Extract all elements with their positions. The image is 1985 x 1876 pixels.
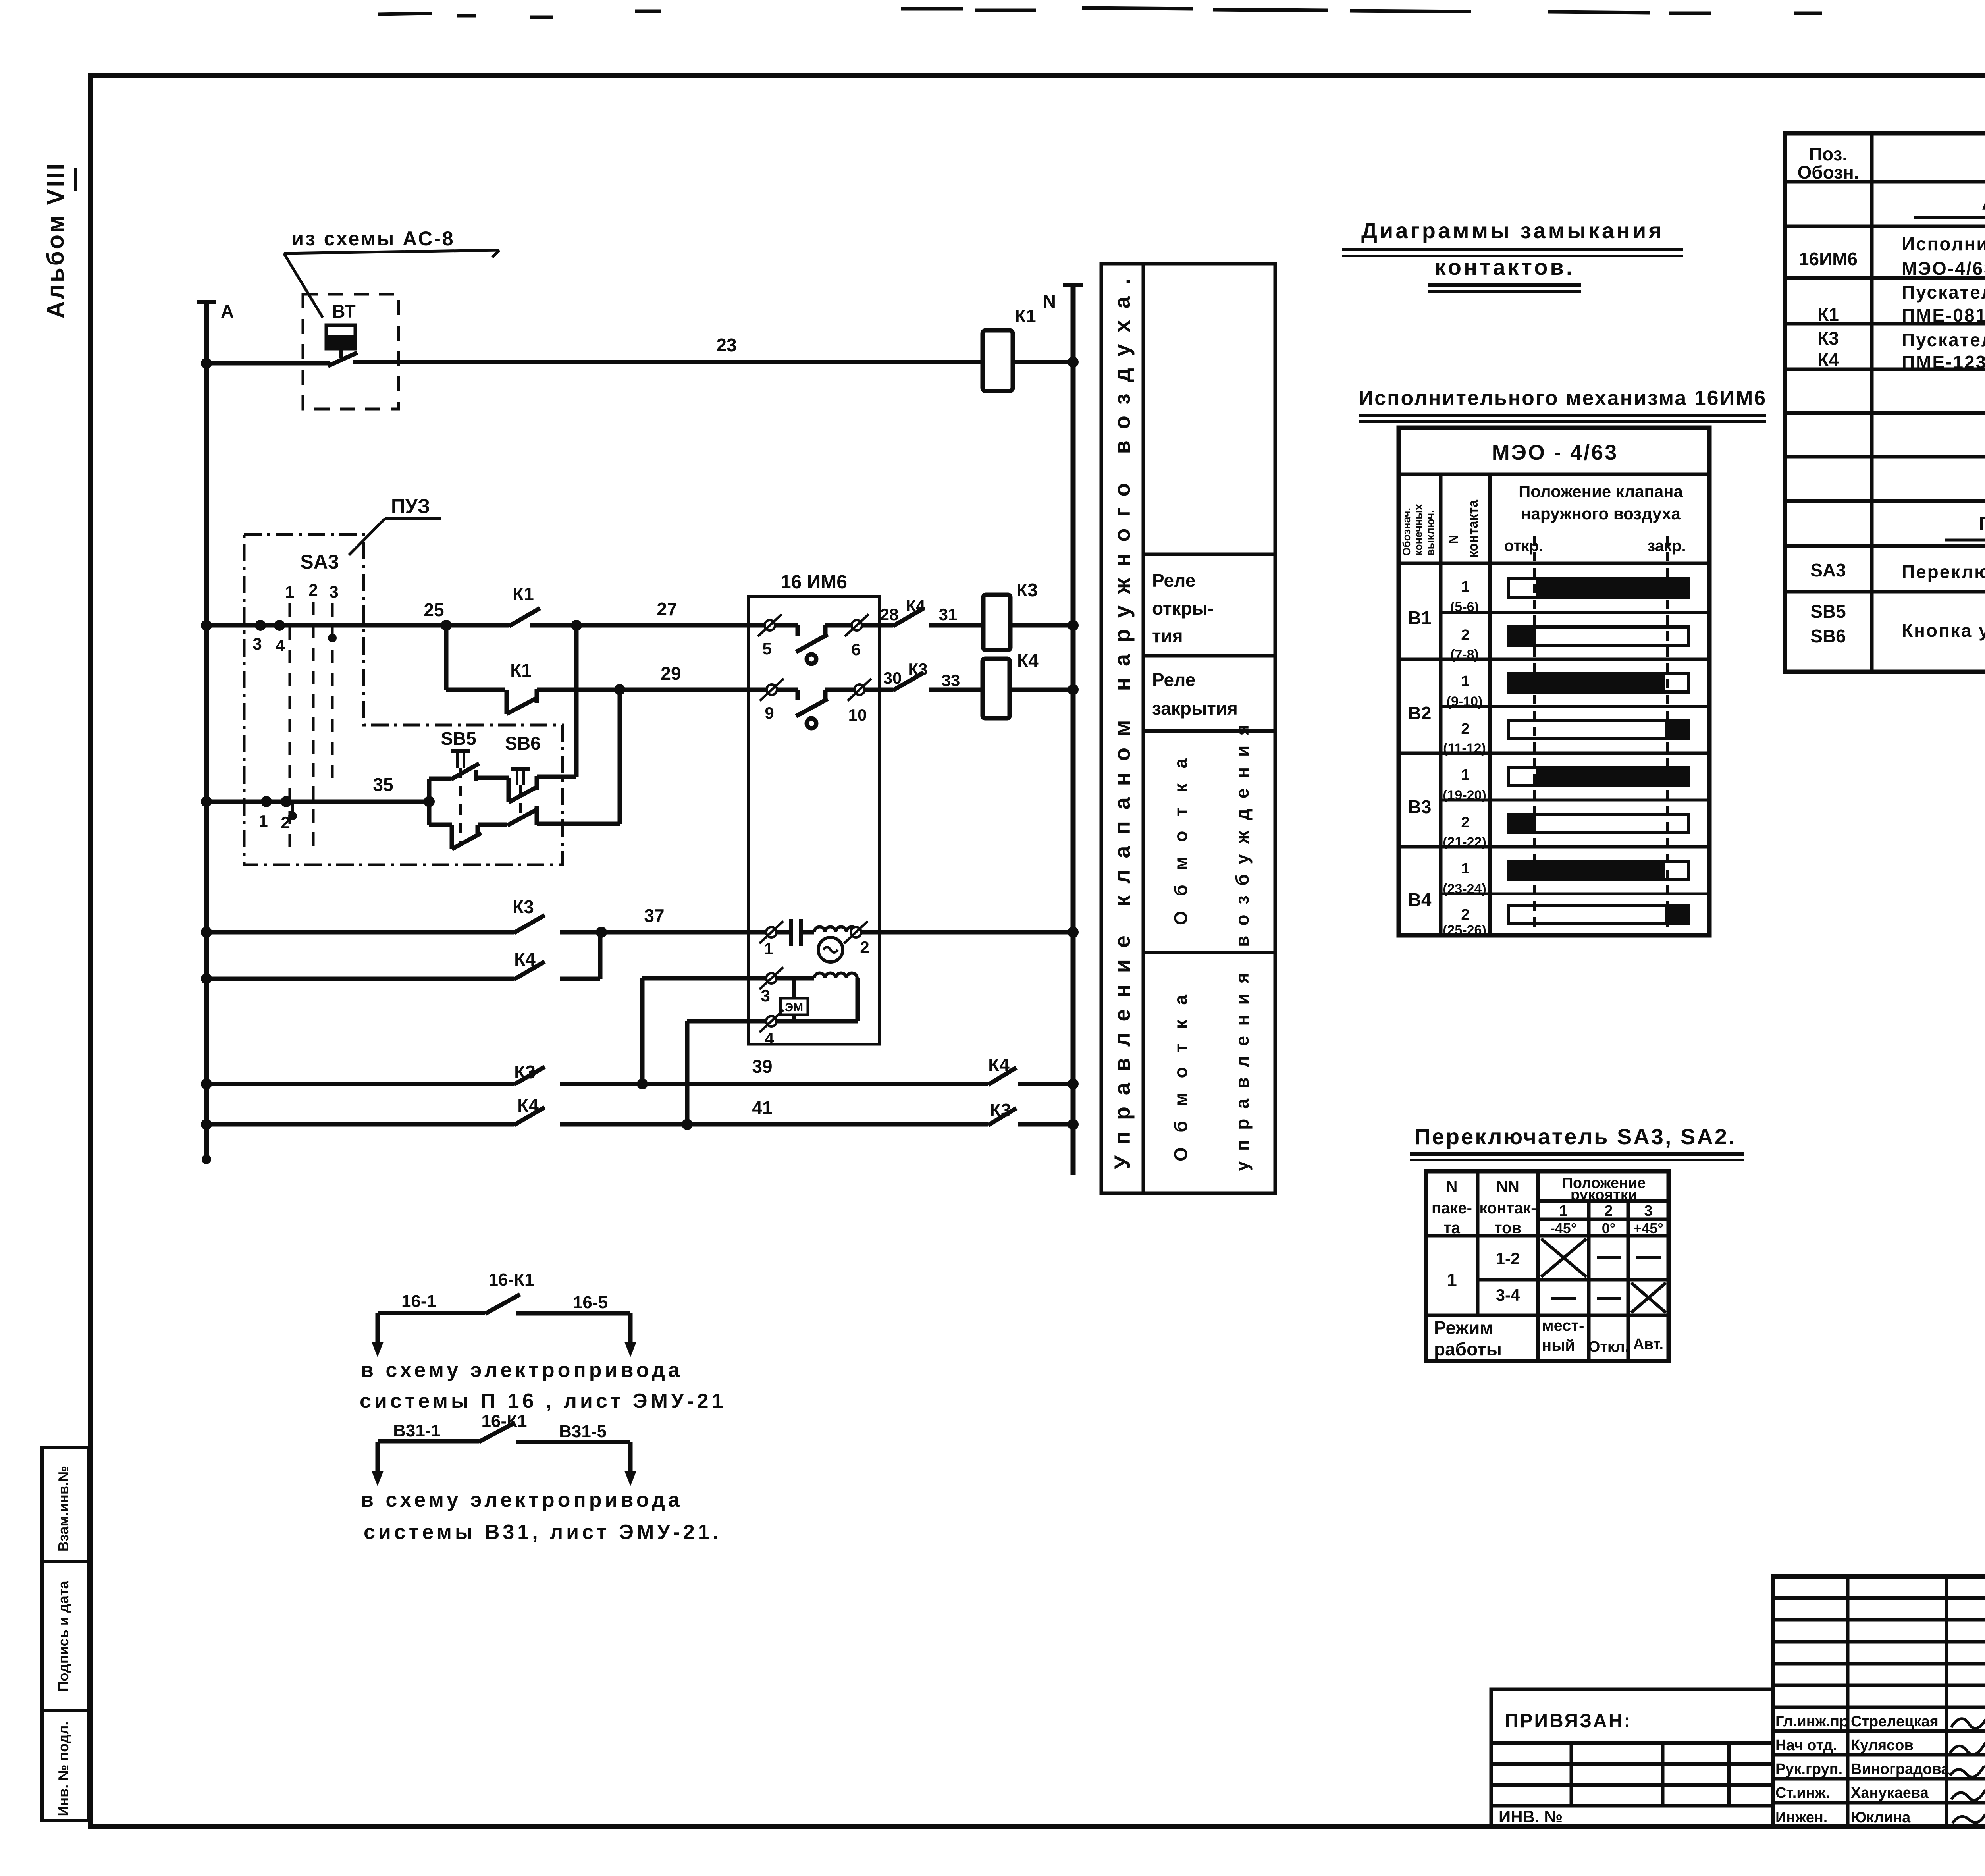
- svg-text:(21-22): (21-22): [1443, 835, 1486, 850]
- svg-text:NN: NN: [1496, 1178, 1519, 1195]
- svg-text:Гл.инж.пр: Гл.инж.пр: [1775, 1713, 1848, 1730]
- svg-text:SB5: SB5: [441, 728, 476, 749]
- svg-text:1: 1: [285, 582, 294, 601]
- svg-text:Обозн.: Обозн.: [1797, 162, 1859, 183]
- svg-text:К3: К3: [908, 660, 928, 679]
- svg-text:контактов.: контактов.: [1435, 255, 1575, 280]
- svg-text:2: 2: [281, 813, 290, 832]
- svg-text:2: 2: [860, 938, 869, 956]
- svg-text:ПУЗ: ПУЗ: [391, 495, 430, 517]
- svg-text:4: 4: [765, 1029, 774, 1048]
- svg-text:-45°: -45°: [1550, 1220, 1576, 1236]
- svg-text:27: 27: [657, 599, 677, 619]
- svg-text:контакта: контакта: [1466, 499, 1481, 558]
- svg-text:В2: В2: [1408, 703, 1432, 723]
- svg-text:ИНВ. №: ИНВ. №: [1499, 1807, 1563, 1826]
- svg-text:16-К1: 16-К1: [482, 1411, 527, 1431]
- svg-text:ПМЕ-081 ~220 В: ПМЕ-081 ~220 В: [1902, 305, 1985, 326]
- svg-text:9: 9: [765, 704, 774, 722]
- svg-text:Исполнительный механизм: Исполнительный механизм: [1902, 233, 1985, 254]
- svg-text:N: N: [1446, 1178, 1458, 1195]
- svg-text:Рук.груп.: Рук.груп.: [1775, 1761, 1842, 1778]
- svg-text:Пускатель магнитный: Пускатель магнитный: [1902, 330, 1985, 350]
- svg-text:31: 31: [939, 605, 958, 624]
- svg-text:В31-1: В31-1: [393, 1421, 441, 1440]
- svg-text:Переключатель: Переключатель: [1902, 561, 1985, 582]
- svg-text:Поз.: Поз.: [1809, 144, 1847, 164]
- svg-text:В1: В1: [1408, 607, 1432, 628]
- svg-text:1: 1: [1461, 767, 1469, 783]
- svg-text:Инв. № подл.: Инв. № подл.: [55, 1722, 71, 1816]
- svg-text:К4: К4: [1817, 349, 1839, 370]
- svg-text:откр.: откр.: [1504, 537, 1544, 555]
- svg-text:контак-: контак-: [1479, 1199, 1536, 1217]
- svg-text:3: 3: [329, 582, 338, 601]
- svg-text:(11-12): (11-12): [1443, 741, 1486, 756]
- svg-text:ПРИВЯЗАН:: ПРИВЯЗАН:: [1505, 1710, 1632, 1731]
- svg-text:16-5: 16-5: [573, 1293, 608, 1312]
- svg-text:К3: К3: [513, 897, 534, 917]
- svg-text:30: 30: [883, 669, 902, 687]
- svg-text:35: 35: [373, 774, 393, 795]
- svg-text:(25-26): (25-26): [1443, 923, 1486, 938]
- svg-text:1: 1: [258, 812, 268, 830]
- svg-text:10: 10: [848, 706, 867, 724]
- svg-text:2: 2: [1461, 906, 1469, 923]
- svg-text:ПМЕ-123 ~220в.: ПМЕ-123 ~220в.: [1902, 352, 1985, 372]
- svg-text:паке-: паке-: [1432, 1199, 1472, 1217]
- svg-text:25: 25: [424, 600, 444, 620]
- svg-text:SB5: SB5: [1810, 601, 1846, 622]
- svg-text:в схему электропривода: в схему электропривода: [361, 1488, 683, 1512]
- svg-text:К4: К4: [517, 1095, 539, 1116]
- svg-text:тия: тия: [1152, 626, 1183, 646]
- svg-text:3: 3: [252, 634, 262, 653]
- svg-text:N: N: [1446, 535, 1461, 544]
- svg-text:К4: К4: [906, 596, 926, 615]
- svg-text:(5-6): (5-6): [1450, 600, 1479, 615]
- svg-text:Пост управления ПУЗ: Пост управления ПУЗ: [1979, 513, 1985, 535]
- svg-text:К4: К4: [1017, 650, 1039, 671]
- svg-text:6: 6: [851, 640, 860, 659]
- svg-text:41: 41: [752, 1097, 772, 1118]
- svg-text:К1: К1: [1817, 304, 1839, 325]
- svg-text:2: 2: [1604, 1203, 1613, 1219]
- svg-text:+45°: +45°: [1633, 1220, 1663, 1236]
- svg-text:МЭО-4/63: МЭО-4/63: [1902, 258, 1985, 279]
- svg-text:выключ.: выключ.: [1424, 510, 1436, 556]
- svg-text:Подпись и дата: Подпись и дата: [55, 1581, 71, 1692]
- svg-text:В3: В3: [1408, 796, 1432, 817]
- svg-text:К3: К3: [990, 1100, 1011, 1120]
- svg-text:SB6: SB6: [1810, 626, 1846, 646]
- svg-text:работы: работы: [1434, 1339, 1502, 1359]
- svg-text:в схему электропривода: в схему электропривода: [361, 1359, 683, 1382]
- svg-text:37: 37: [644, 905, 664, 926]
- svg-text:В31-5: В31-5: [559, 1422, 607, 1441]
- svg-text:0°: 0°: [1602, 1220, 1615, 1236]
- svg-text:5: 5: [762, 639, 771, 658]
- svg-text:1: 1: [1559, 1203, 1567, 1219]
- svg-text:тов: тов: [1494, 1219, 1521, 1237]
- svg-text:16 ИМ6: 16 ИМ6: [781, 572, 847, 593]
- svg-text:23: 23: [716, 335, 736, 355]
- svg-text:Ханукаева: Ханукаева: [1851, 1785, 1929, 1801]
- svg-text:закрытия: закрытия: [1152, 698, 1238, 719]
- svg-text:К3: К3: [514, 1062, 536, 1082]
- svg-text:Инжен.: Инжен.: [1775, 1809, 1827, 1826]
- svg-text:ВТ: ВТ: [332, 301, 356, 322]
- svg-text:Диаграммы замыкания: Диаграммы замыкания: [1361, 218, 1664, 243]
- svg-text:Виноградова: Виноградова: [1851, 1761, 1950, 1778]
- svg-text:1: 1: [1461, 673, 1469, 690]
- svg-text:1: 1: [1461, 578, 1469, 595]
- svg-text:29: 29: [661, 663, 681, 684]
- svg-text:16ИМ6: 16ИМ6: [1799, 249, 1858, 269]
- svg-text:Авт.: Авт.: [1633, 1336, 1663, 1353]
- svg-text:33: 33: [942, 671, 960, 690]
- svg-text:SA3: SA3: [1810, 560, 1846, 580]
- svg-text:рукоятки: рукоятки: [1571, 1187, 1637, 1203]
- svg-text:Реле: Реле: [1152, 570, 1195, 591]
- svg-text:Пускатель магнитный: Пускатель магнитный: [1902, 282, 1985, 303]
- svg-text:откры-: откры-: [1152, 598, 1214, 619]
- svg-text:Взам.инв.№: Взам.инв.№: [55, 1466, 71, 1552]
- svg-text:Реле: Реле: [1152, 669, 1195, 690]
- svg-text:16-1: 16-1: [401, 1292, 436, 1311]
- svg-text:3-4: 3-4: [1496, 1286, 1520, 1304]
- svg-text:Стрелецкая: Стрелецкая: [1851, 1713, 1939, 1730]
- svg-text:Кнопка управления: Кнопка управления: [1902, 620, 1985, 641]
- svg-text:из схемы АС-8: из схемы АС-8: [291, 228, 455, 250]
- svg-text:1: 1: [764, 939, 773, 958]
- svg-text:А: А: [221, 301, 234, 322]
- svg-text:3: 3: [1644, 1203, 1652, 1219]
- svg-text:SB6: SB6: [505, 733, 540, 754]
- svg-text:ЭМ: ЭМ: [785, 1001, 803, 1014]
- svg-text:Аппаратура по месту: Аппаратура по месту: [1982, 192, 1985, 214]
- svg-text:ный: ный: [1542, 1337, 1575, 1354]
- svg-text:системы П 16 , лист ЭМУ-21: системы П 16 , лист ЭМУ-21: [360, 1390, 726, 1413]
- svg-text:та: та: [1443, 1219, 1461, 1237]
- svg-text:Альбом VIII: Альбом VIII: [42, 164, 69, 318]
- svg-text:Кулясов: Кулясов: [1851, 1737, 1914, 1754]
- svg-text:К3: К3: [1016, 580, 1038, 600]
- svg-text:1-2: 1-2: [1496, 1249, 1520, 1268]
- svg-text:К4: К4: [514, 949, 536, 970]
- svg-text:(19-20): (19-20): [1443, 788, 1486, 803]
- svg-text:К4: К4: [988, 1055, 1010, 1075]
- svg-text:39: 39: [752, 1056, 772, 1077]
- svg-text:мест-: мест-: [1542, 1317, 1584, 1334]
- svg-text:Исполнительного механизма 16ИМ: Исполнительного механизма 16ИМ6: [1359, 387, 1767, 410]
- svg-text:В4: В4: [1408, 889, 1432, 910]
- svg-text:К3: К3: [1817, 328, 1839, 349]
- svg-text:Ст.инж.: Ст.инж.: [1775, 1785, 1830, 1801]
- svg-text:2: 2: [1461, 814, 1469, 831]
- svg-text:2: 2: [1461, 627, 1469, 644]
- svg-text:2: 2: [1461, 721, 1469, 737]
- svg-text:К1: К1: [510, 660, 532, 681]
- svg-text:(23-24): (23-24): [1443, 881, 1486, 897]
- svg-text:Положение клапана: Положение клапана: [1519, 482, 1683, 501]
- svg-text:28: 28: [880, 605, 899, 624]
- svg-text:3: 3: [761, 986, 770, 1005]
- svg-text:наружного воздуха: наружного воздуха: [1521, 504, 1681, 523]
- svg-text:16-К1: 16-К1: [489, 1270, 534, 1290]
- svg-text:конечных: конечных: [1413, 504, 1424, 556]
- svg-text:SA3: SA3: [300, 551, 339, 573]
- svg-text:К1: К1: [513, 584, 534, 604]
- svg-text:Нач отд.: Нач отд.: [1775, 1737, 1837, 1754]
- svg-text:Юклина: Юклина: [1851, 1809, 1911, 1826]
- svg-text:1: 1: [1461, 860, 1469, 877]
- svg-text:4: 4: [276, 636, 285, 655]
- svg-text:МЭО - 4/63: МЭО - 4/63: [1492, 441, 1619, 465]
- svg-text:закр.: закр.: [1647, 537, 1686, 555]
- svg-text:(7-8): (7-8): [1450, 647, 1479, 662]
- svg-text:1: 1: [1447, 1270, 1457, 1290]
- svg-text:Переключатель SA3, SA2.: Переключатель SA3, SA2.: [1414, 1124, 1736, 1149]
- svg-text:2: 2: [308, 580, 318, 599]
- svg-text:Обознач.: Обознач.: [1401, 508, 1413, 556]
- svg-text:системы В31, лист ЭМУ-21.: системы В31, лист ЭМУ-21.: [364, 1521, 721, 1544]
- svg-text:К1: К1: [1015, 306, 1036, 326]
- svg-text:Режим: Режим: [1434, 1317, 1493, 1338]
- svg-text:(9-10): (9-10): [1447, 694, 1483, 709]
- svg-text:N: N: [1043, 291, 1056, 312]
- svg-text:Откл.: Откл.: [1588, 1338, 1629, 1355]
